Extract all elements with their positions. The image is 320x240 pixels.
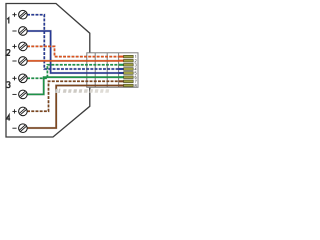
- wire 3- green solid to pin 6: [27, 77, 119, 94]
- wire 1+ white-blue dashed to pin 4: [27, 15, 119, 69]
- screw 4+: [19, 107, 28, 116]
- faint watermark: [55, 89, 109, 93]
- pair labels: [6, 18, 10, 121]
- screw 1+: [19, 10, 28, 19]
- wire shading underlay: [27, 15, 119, 128]
- minus 2: [12, 60, 16, 62]
- plus 4: [12, 110, 16, 112]
- wire 4+ white-brown dashed to pin 7: [27, 81, 119, 111]
- wire 2- orange solid to pin 2: [27, 60, 119, 62]
- screw 2-: [19, 57, 28, 66]
- screw 1-: [19, 27, 28, 36]
- plug inner line 1: [94, 53, 96, 88]
- wire 2+ white-orange dashed to pin 1: [27, 46, 119, 56]
- screw 3+: [19, 74, 28, 83]
- plus 1: [12, 14, 16, 16]
- minus 3: [12, 93, 16, 95]
- minus 4: [12, 127, 16, 129]
- screw 4-: [19, 124, 28, 133]
- minus 1: [12, 30, 16, 32]
- plug contact line: [118, 53, 120, 88]
- plug inner line 2: [106, 53, 108, 88]
- RJ45 plug body: [87, 53, 138, 88]
- terminal screws: [19, 10, 28, 132]
- contact stubs: [119, 57, 124, 86]
- screw 3-: [19, 90, 28, 99]
- plus 3: [12, 77, 16, 79]
- wire 3+ white-green dashed to pin 3: [27, 65, 119, 79]
- wire 1- blue solid to pin 5: [27, 31, 119, 73]
- plus 2: [12, 45, 16, 47]
- wire 4- brown solid to pin 8: [27, 86, 119, 129]
- gold contacts pins 1-8: [124, 55, 134, 86]
- screw 2+: [19, 42, 28, 51]
- enclosure outline: [6, 4, 90, 138]
- pin numbers 1-8: [135, 55, 137, 87]
- polarity signs: [12, 13, 16, 129]
